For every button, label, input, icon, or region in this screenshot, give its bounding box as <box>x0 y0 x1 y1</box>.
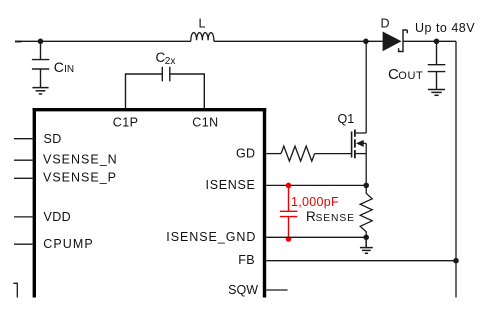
svg-text:FB: FB <box>238 253 255 267</box>
svg-text:L: L <box>199 17 206 31</box>
capacitor CIN <box>32 41 49 87</box>
wire ISENSE_GND net <box>266 236 366 238</box>
node ISENSE / RSENSE / Q1 source junction <box>363 183 369 189</box>
svg-text:D: D <box>381 17 390 31</box>
svg-text:SENSE: SENSE <box>316 213 355 224</box>
svg-text:Q1: Q1 <box>338 112 355 126</box>
svg-text:ISENSE_GND: ISENSE_GND <box>166 230 256 244</box>
svg-text:1,000pF: 1,000pF <box>291 195 339 209</box>
resistor RSENSE <box>360 185 372 237</box>
wire resistor to Q1 gate <box>315 153 351 155</box>
svg-text:CPUMP: CPUMP <box>43 237 94 251</box>
capacitor C2x <box>126 67 205 108</box>
node red top (ISENSE tap) <box>286 183 292 189</box>
diode D <box>383 32 402 52</box>
pin VDD <box>14 216 33 218</box>
corner mark (cropped component bottom-left) <box>13 283 17 297</box>
svg-text:Up to 48V: Up to 48V <box>415 21 475 35</box>
IC U1 box (top, left, right edges) <box>33 108 267 111</box>
pin VSENSE_P <box>14 177 33 179</box>
node Q1 drain tap <box>363 39 369 45</box>
svg-text:VSENSE_N: VSENSE_N <box>43 152 118 166</box>
ground (under CIN) <box>32 88 48 94</box>
svg-text:GD: GD <box>236 147 256 161</box>
node CIN tap <box>38 39 44 45</box>
svg-text:C1P: C1P <box>113 115 139 129</box>
wire FB net <box>266 260 456 262</box>
svg-text:SD: SD <box>44 132 62 146</box>
svg-text:2x: 2x <box>165 56 176 67</box>
transistor Q1 <box>352 41 367 185</box>
node COUT tap <box>434 39 440 45</box>
node RSENSE bottom junction <box>363 235 369 241</box>
svg-text:VDD: VDD <box>44 210 72 224</box>
resistor (gate) <box>281 146 315 161</box>
wire top rail left (input to inductor) <box>15 40 191 42</box>
wire right rail <box>455 41 457 297</box>
wire ISENSE net <box>266 184 366 186</box>
svg-text:ISENSE: ISENSE <box>206 178 256 192</box>
pin SD <box>14 138 33 140</box>
svg-text:SQW: SQW <box>228 283 258 297</box>
capacitor COUT <box>428 41 446 89</box>
wire top rail middle (inductor to diode) <box>214 40 383 42</box>
node FB / right rail junction <box>453 258 459 264</box>
svg-text:OUT: OUT <box>398 70 423 82</box>
pin CPUMP <box>14 243 33 245</box>
ground (under RSENSE) <box>360 237 373 253</box>
svg-text:R: R <box>306 209 316 224</box>
svg-text:VSENSE_P: VSENSE_P <box>43 171 117 185</box>
inductor L <box>191 33 214 42</box>
wire GD to resistor <box>266 153 281 155</box>
node red bottom (ISENSE_GND tap) <box>286 236 292 242</box>
svg-text:C1N: C1N <box>192 115 218 129</box>
ground (under COUT) <box>428 90 445 96</box>
wire top rail right (diode to output corner) <box>403 40 456 42</box>
pin VSENSE_N <box>14 159 33 161</box>
capacitor 1,000pF (red) <box>280 185 298 239</box>
